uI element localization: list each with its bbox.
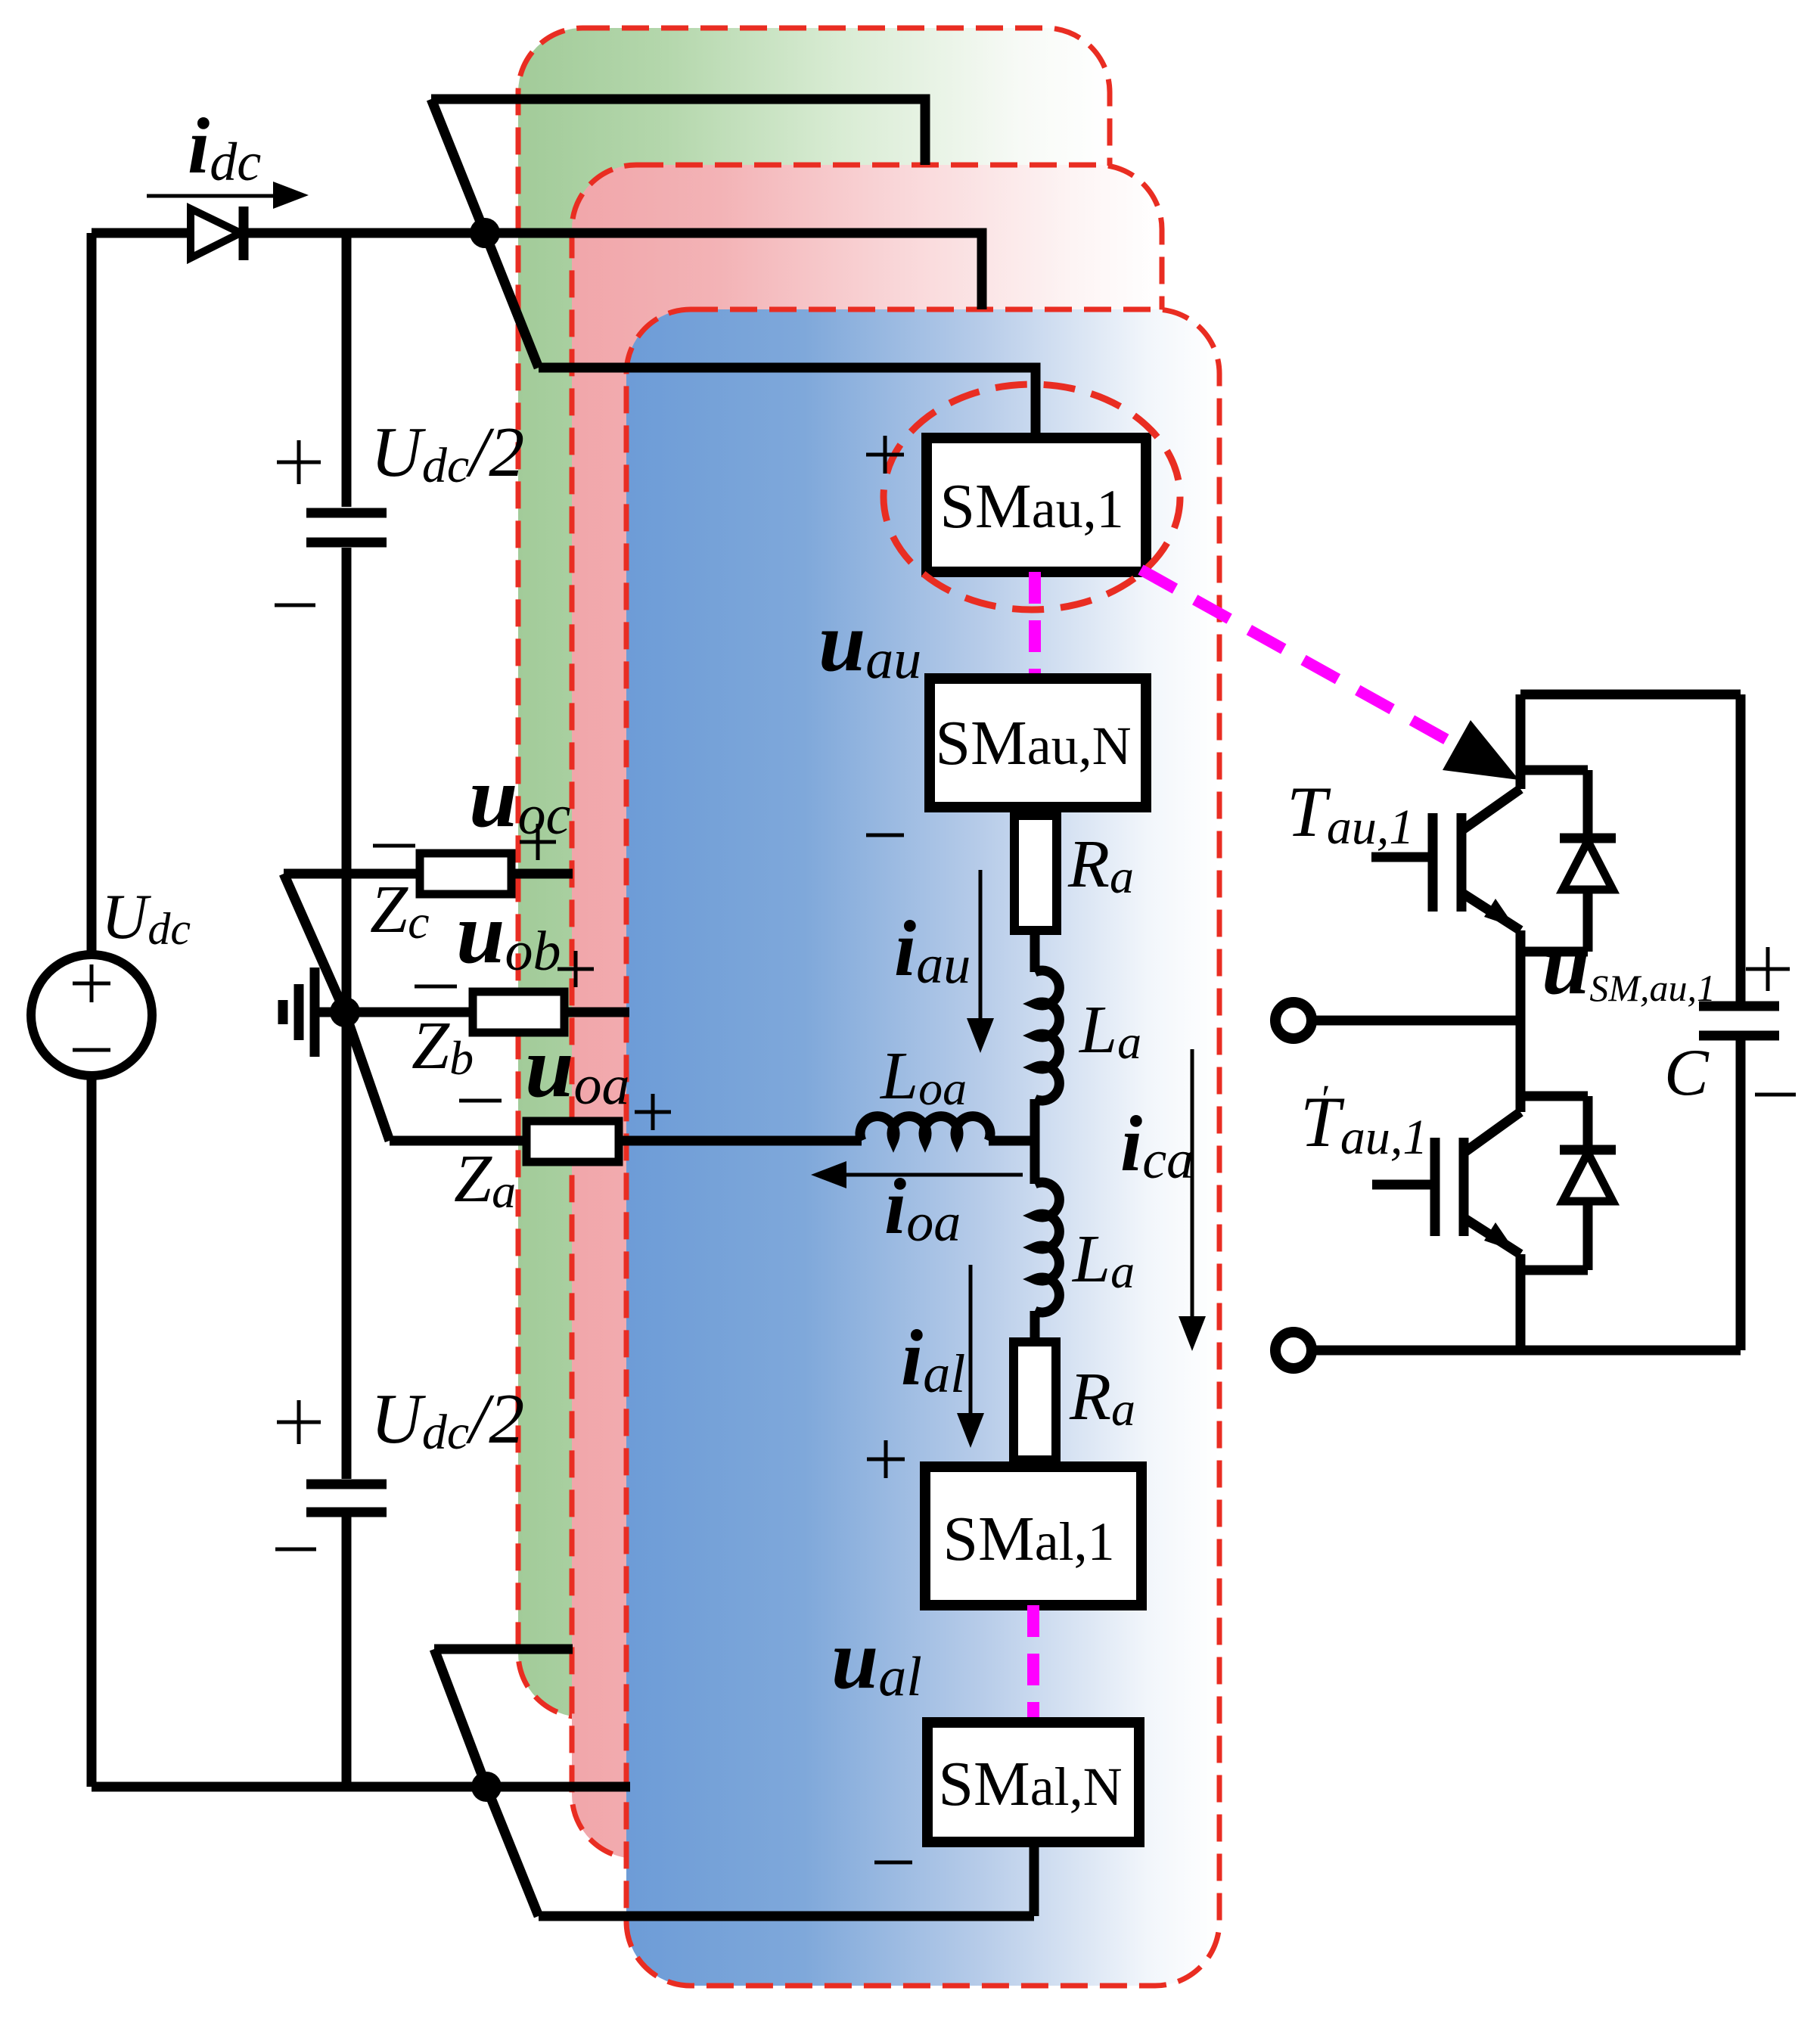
inductor La upper	[1035, 971, 1059, 1141]
capacitor C	[1699, 1006, 1779, 1036]
magenta link SMau chain	[1029, 572, 1041, 679]
terminal upper	[1275, 1002, 1312, 1039]
wire dc- bottom bus	[92, 1782, 630, 1792]
phase b leg panel (pink, dashed red border)	[572, 165, 1162, 1859]
arrow ica	[1191, 1049, 1194, 1318]
node bottom junction	[471, 1772, 502, 1802]
resistor Zb	[473, 992, 564, 1033]
wire Zb branch	[310, 1008, 629, 1017]
phase c leg panel (green, dashed red border)	[518, 28, 1110, 1717]
label + Za	[635, 1094, 671, 1130]
label + Zc	[520, 824, 556, 860]
arrow ial	[969, 1265, 973, 1415]
submodule SMal,N	[927, 1722, 1139, 1842]
inductor Loa	[860, 1117, 1035, 1141]
label + lower capacitor	[277, 1400, 321, 1444]
arrow ioa	[843, 1173, 1023, 1177]
label - upper capacitor	[275, 604, 315, 607]
wire slant bottom node to phase a	[486, 1787, 539, 1916]
svg-text:′: ′	[1319, 1078, 1329, 1121]
svg-text:SMau,N: SMau,N	[935, 708, 1131, 778]
source Udc	[31, 955, 152, 1076]
label + lower arm	[867, 1440, 905, 1478]
diode D T'au,1	[1520, 1096, 1588, 1270]
svg-text:SMal,N: SMal,N	[938, 1749, 1122, 1819]
resistor Ra upper	[1014, 815, 1057, 930]
resistor Zc	[420, 853, 511, 894]
diode D Tau,1	[1520, 770, 1588, 952]
wire Ra to SMal,1	[1030, 1460, 1040, 1467]
magenta link SMal chain	[1027, 1605, 1039, 1722]
submodule SMau,N	[930, 679, 1146, 807]
label - Zc	[373, 844, 415, 848]
submodule SMau,1	[927, 438, 1146, 572]
wire slant top node to phase a feed	[485, 233, 539, 368]
wire Ra to La	[1030, 930, 1040, 972]
svg-text:SMau,1: SMau,1	[940, 471, 1123, 542]
wire SMau,N to Ra	[1030, 807, 1040, 815]
resistor Ra lower	[1014, 1342, 1056, 1460]
magenta pointer to detail	[1141, 570, 1502, 770]
svg-text:C: C	[1664, 1036, 1710, 1110]
terminal lower	[1275, 1332, 1312, 1368]
label - lower arm	[874, 1861, 912, 1865]
wire phase c top feed	[431, 99, 925, 165]
wire mid output	[1311, 1016, 1520, 1026]
wire mid junction down	[1030, 1141, 1040, 1184]
inductor La lower	[1035, 1182, 1059, 1342]
node ac neutral	[330, 997, 360, 1027]
label - Za	[459, 1099, 502, 1103]
wire SMal,N to bottom feed	[539, 1842, 1034, 1916]
transistor Tau,1 (upper IGBT)	[1461, 694, 1520, 831]
wire submodule right rail lower	[1736, 1036, 1746, 1350]
label - Zb	[415, 985, 457, 989]
label - upper arm	[866, 834, 904, 837]
label + Zb	[557, 951, 594, 987]
arrow iau	[979, 870, 983, 1023]
wire capacitor branch	[342, 233, 352, 1787]
label + capacitor C	[1746, 947, 1790, 991]
wire submodule top rail	[1520, 694, 1741, 1006]
capacitor Udc/2 upper	[306, 513, 387, 542]
wire slant top node to phase c feed	[431, 99, 485, 233]
label - lower capacitor	[275, 1548, 316, 1551]
label - capacitor C	[1755, 1093, 1796, 1097]
wire phase c bottom feed	[434, 1649, 573, 1787]
red dashed ellipse highlight	[884, 384, 1180, 610]
wire dc+ top bus	[92, 233, 982, 309]
wire left loop	[87, 233, 97, 1787]
arrow idc	[147, 194, 276, 198]
label + upper capacitor	[277, 440, 321, 484]
transistor T'au,1 (lower IGBT)	[1464, 1020, 1520, 1153]
svg-text:SMal,1: SMal,1	[943, 1504, 1114, 1574]
node top junction	[470, 218, 500, 248]
ground	[283, 968, 315, 1057]
submodule SMal,1	[925, 1467, 1141, 1605]
diode D1	[191, 209, 241, 258]
wire submodule bottom rail	[1311, 1346, 1741, 1356]
wire phase a top feed	[539, 368, 1036, 438]
resistor Za	[526, 1121, 619, 1162]
phase a leg panel (blue, dashed red border)	[626, 309, 1219, 1986]
label + upper arm	[866, 436, 904, 474]
wire Zc branch	[284, 874, 573, 1012]
capacitor Udc/2 lower	[306, 1484, 387, 1512]
wire Za branch	[345, 1012, 862, 1141]
